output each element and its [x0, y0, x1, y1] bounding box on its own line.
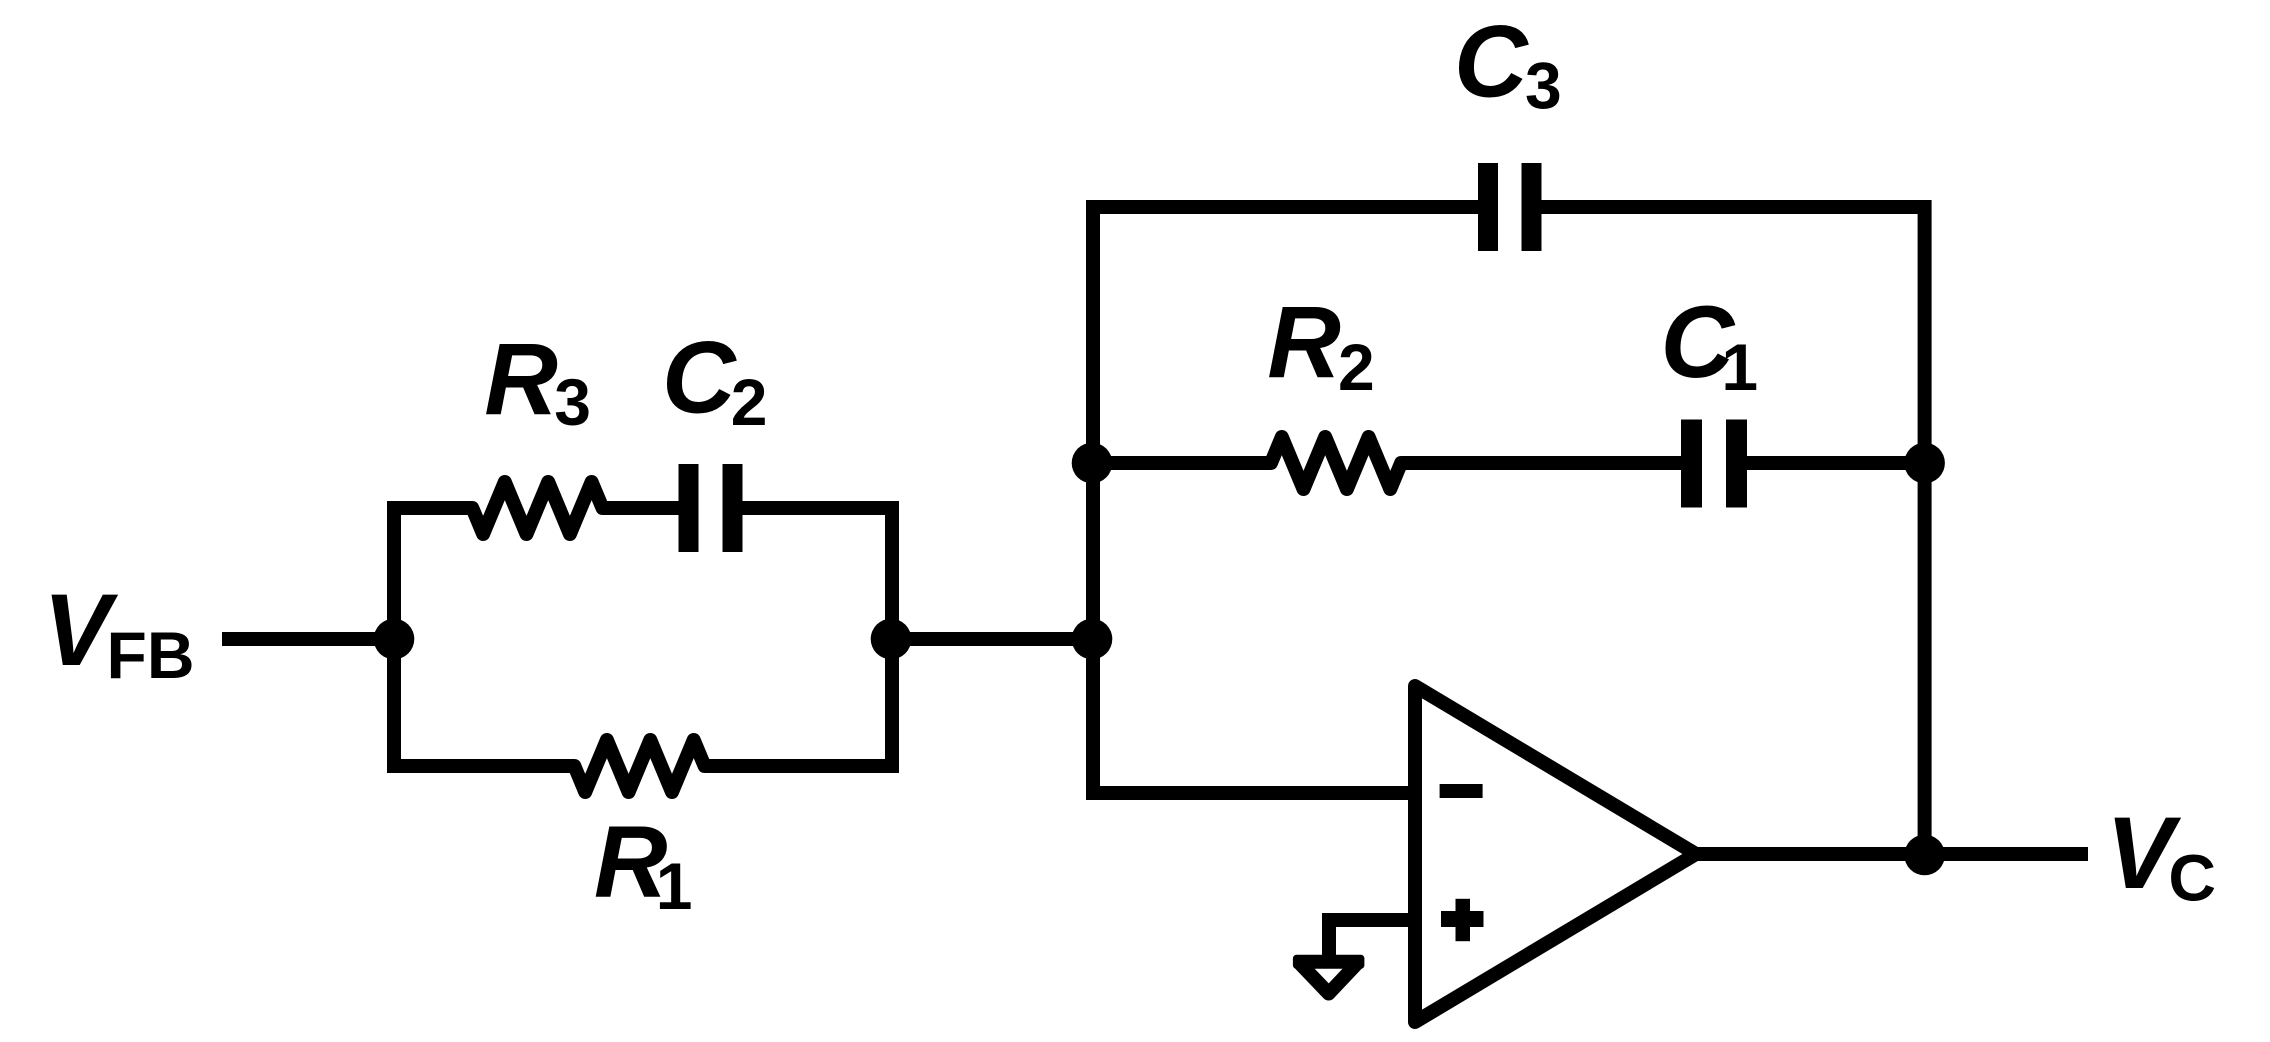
svg-text:2: 2: [731, 365, 768, 439]
capacitor C3 plates: [1478, 163, 1498, 251]
svg-text:R: R: [484, 322, 558, 436]
wire op-amp output: [1696, 847, 2088, 861]
op-amp U1 triangle: [1415, 686, 1696, 1022]
svg-text:R: R: [1267, 285, 1341, 399]
wire box2 top-right + right rail down to output node: [1542, 207, 1925, 855]
wire box2 top-left + left rail + inverting input feed: [1093, 207, 1478, 793]
svg-text:FB: FB: [107, 618, 195, 692]
resistor R3: [466, 482, 679, 534]
wire box1 left rail with top/bottom leads: [394, 508, 574, 766]
op-amp plus sign: [1441, 911, 1484, 927]
node V_FB junction: [374, 619, 415, 660]
node middle branch right: [1904, 443, 1945, 484]
svg-text:C: C: [662, 321, 737, 435]
capacitor C2 plates: [679, 464, 699, 552]
node output: [1904, 835, 1945, 876]
svg-text:1: 1: [1721, 330, 1758, 404]
svg-text:C: C: [2168, 841, 2216, 915]
svg-text:3: 3: [554, 365, 591, 439]
wire non-inverting input to ground: [1329, 920, 1415, 957]
wire node A to node B: [891, 632, 1092, 646]
node A: [871, 619, 912, 660]
svg-text:2: 2: [1338, 330, 1375, 404]
capacitor C1 plates: [1681, 420, 1702, 508]
wire box1 right rail with top/bottom leads: [705, 508, 892, 766]
node middle branch left: [1072, 443, 1113, 484]
wire V_FB lead: [222, 632, 394, 646]
svg-text:C: C: [1454, 5, 1529, 119]
svg-text:1: 1: [656, 849, 693, 923]
resistor R2 (middle branch left segment with zigzag): [1092, 437, 1681, 489]
wire C1 right plate to right rail: [1747, 456, 1925, 470]
op-amp minus sign: [1440, 784, 1483, 798]
svg-text:3: 3: [1525, 49, 1562, 123]
resistor R1: [568, 740, 711, 792]
node B (inverting input net): [1072, 619, 1113, 660]
ground: [1293, 955, 1365, 969]
